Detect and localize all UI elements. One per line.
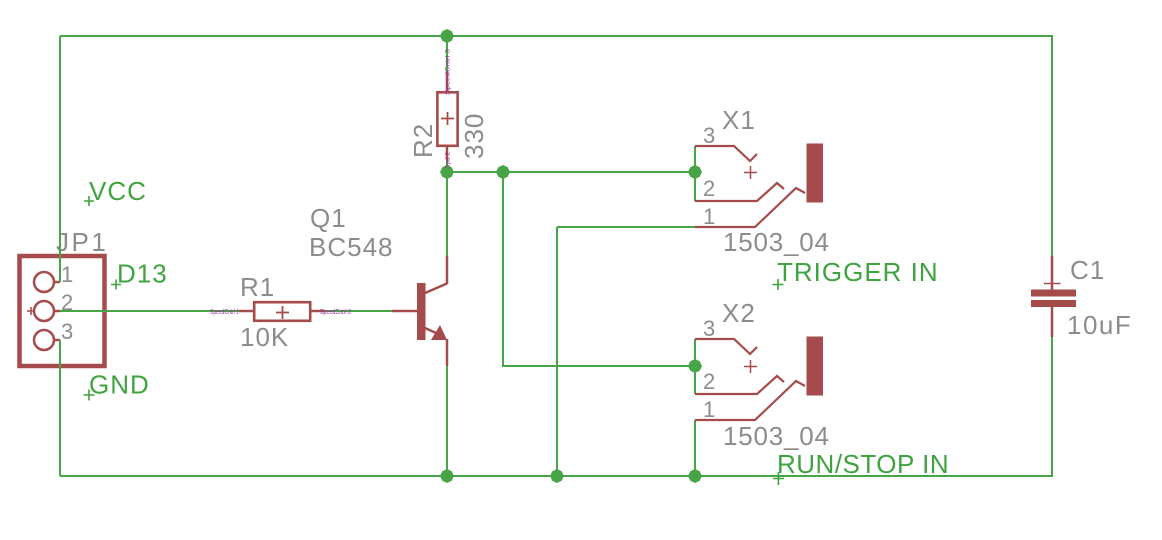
svg-text:Q1: Q1	[310, 203, 347, 233]
svg-text:1503_04: 1503_04	[723, 227, 830, 257]
net cross VCC	[84, 196, 94, 206]
svg-text:JP1: JP1	[56, 227, 108, 257]
junction node X1	[688, 165, 702, 179]
junction node emitter GND	[440, 469, 454, 483]
wire right column lower	[1051, 337, 1053, 476]
svg-text:1: 1	[703, 204, 715, 229]
jack X2 sleeve bar	[807, 337, 824, 396]
jack X2	[695, 339, 805, 420]
jack X1 sleeve bar	[807, 144, 824, 203]
wire JP1 pin2 to R1	[60, 310, 239, 312]
wire right column upper	[1051, 36, 1053, 256]
wire R2 top	[446, 36, 448, 72]
svg-text:SpeedCntrl 2: SpeedCntrl 2	[320, 309, 351, 316]
svg-text:SpeedCntrl 3: SpeedCntrl 3	[446, 48, 452, 95]
svg-text:GND: GND	[89, 370, 150, 400]
svg-text:2: 2	[703, 176, 715, 201]
svg-text:BC548: BC548	[309, 232, 394, 262]
wire drop to X2	[503, 172, 695, 366]
svg-text:3: 3	[703, 316, 715, 341]
wire emitter to GND	[446, 366, 448, 476]
wire X1 pin1 horizontal	[557, 226, 695, 228]
junction node R2 bottom	[440, 165, 454, 179]
svg-text:330: 330	[459, 113, 489, 159]
svg-text:R2: R2	[408, 123, 438, 158]
svg-text:X2: X2	[722, 298, 756, 328]
transistor Q1	[392, 256, 447, 366]
svg-text:D13: D13	[117, 259, 168, 289]
junction node X1 GND	[550, 469, 564, 483]
junction node X2	[688, 359, 702, 373]
wire top rail VCC	[60, 35, 1053, 37]
wire X2 pin1 down	[694, 420, 696, 476]
net cross TRIGGER IN	[773, 279, 784, 290]
capacitor C1	[1031, 256, 1076, 337]
svg-text:2: 2	[703, 369, 715, 394]
wire left rail upper	[59, 36, 61, 282]
svg-text:1: 1	[61, 262, 73, 287]
wire X2 stem	[694, 339, 696, 394]
svg-text:X1: X1	[722, 105, 756, 135]
svg-text:1503_04: 1503_04	[723, 421, 830, 451]
jack X1	[695, 146, 805, 227]
resistor R2	[437, 72, 457, 160]
wire R2 bottom	[446, 160, 448, 172]
junction node X2 GND	[688, 469, 702, 483]
svg-text:C1: C1	[1070, 255, 1105, 285]
svg-text:R1: R1	[240, 272, 275, 302]
resistor R1	[239, 302, 325, 321]
svg-text:RUN/STOP IN: RUN/STOP IN	[777, 449, 949, 479]
net cross GND	[84, 390, 95, 401]
connector JP1	[20, 256, 105, 366]
svg-text:1: 1	[703, 397, 715, 422]
svg-text:3: 3	[703, 123, 715, 148]
svg-text:TRIGGER IN: TRIGGER IN	[777, 257, 939, 287]
wire left rail lower	[59, 340, 61, 476]
net cross D13	[111, 280, 121, 290]
svg-text:Spd 2: Spd 2	[446, 151, 452, 169]
wire R1 to Q1 base	[325, 310, 392, 312]
net cross RUN/STOP IN	[773, 472, 784, 485]
wire collector	[446, 172, 448, 256]
svg-text:SpeedCntrl 1: SpeedCntrl 1	[210, 309, 239, 316]
wire X1 stem	[694, 146, 696, 201]
svg-text:10K: 10K	[240, 322, 289, 352]
junction node R2 top	[440, 29, 454, 43]
wire X1 pin1 down	[556, 227, 558, 476]
wire bottom rail GND	[60, 475, 1053, 477]
junction node drop	[496, 165, 510, 179]
svg-text:VCC: VCC	[89, 176, 147, 206]
wire mid horizontal to X1	[447, 171, 695, 173]
svg-text:10uF: 10uF	[1067, 310, 1132, 340]
svg-text:3: 3	[61, 319, 73, 344]
